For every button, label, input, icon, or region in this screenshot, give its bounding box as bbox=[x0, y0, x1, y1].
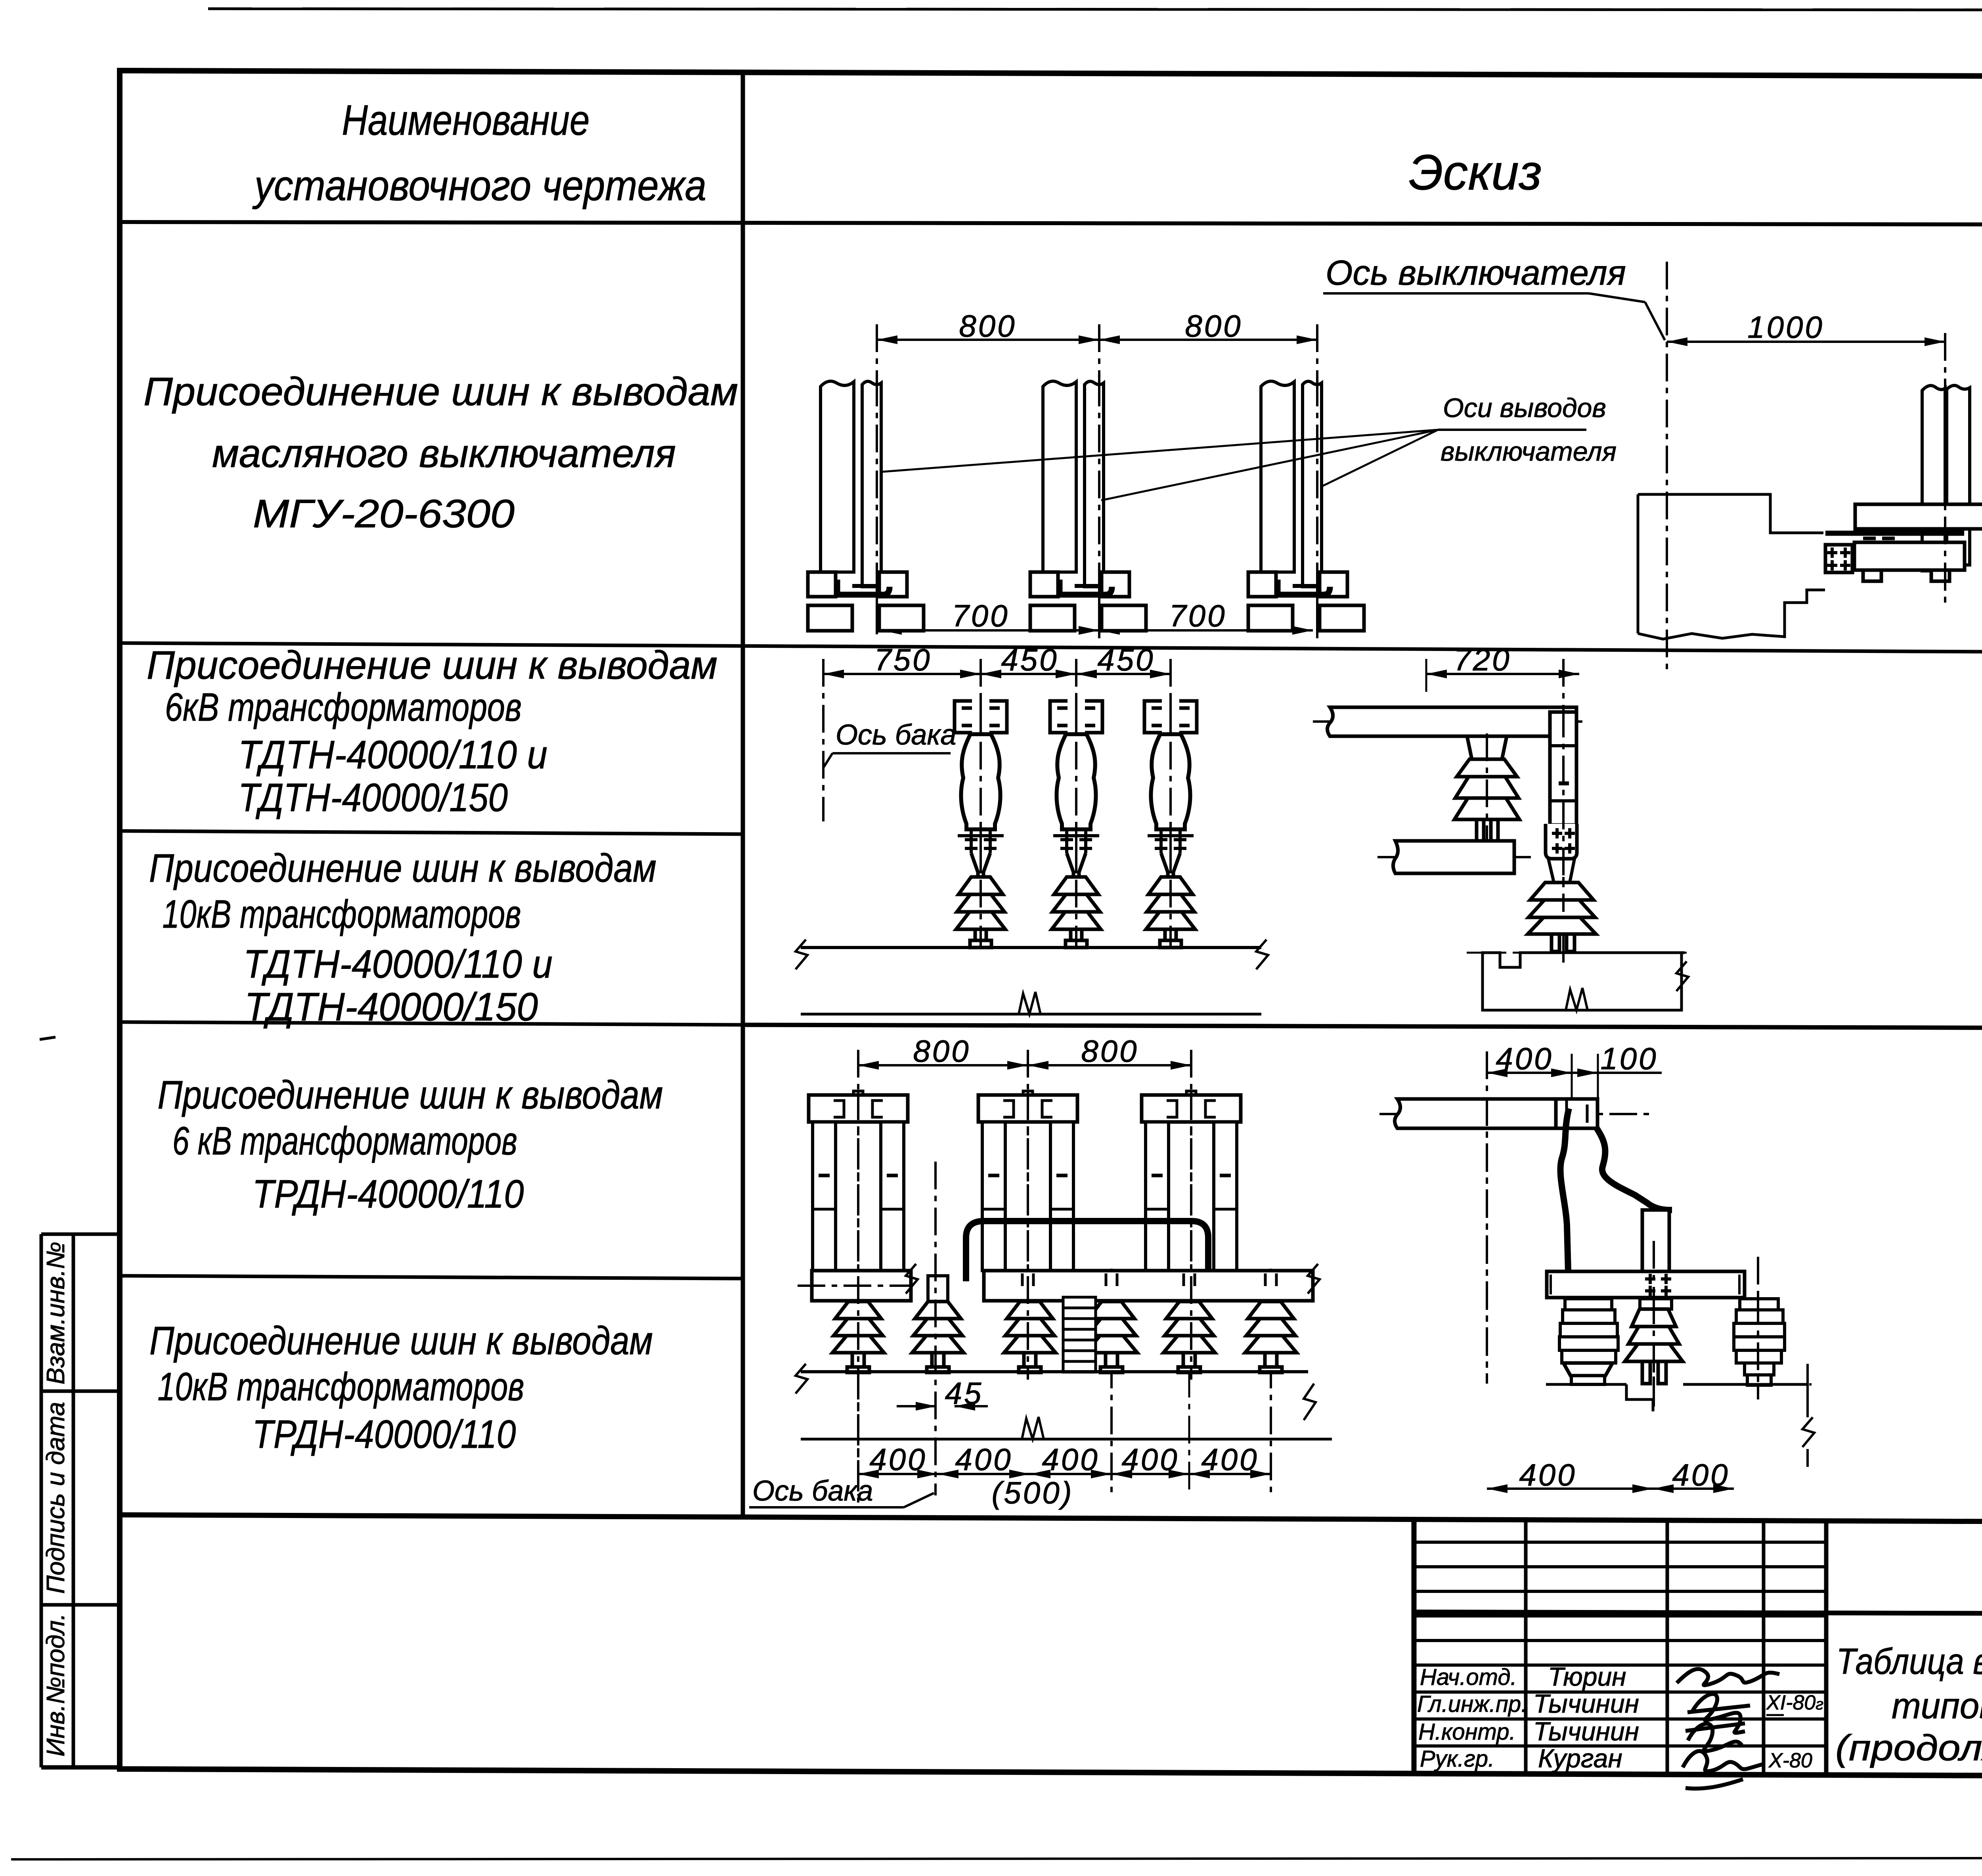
flexible loop conductor sketch C bbox=[966, 1221, 1208, 1281]
sketch B right: top bus run bbox=[1313, 707, 1586, 736]
svg-text:700: 700 bbox=[952, 598, 1009, 633]
corrugated insulator column sketch C left bbox=[1063, 1297, 1096, 1372]
svg-text:Присоединение шин к выводам: Присоединение шин к выводам bbox=[149, 846, 656, 890]
busbar drop assembly phase 2 row1 bbox=[1030, 381, 1146, 631]
svg-text:ТДТН-40000/110 и: ТДТН-40000/110 и bbox=[243, 942, 553, 986]
dimension 700 (B-C) bbox=[1099, 598, 1313, 635]
signature rows labels bbox=[1417, 1664, 1527, 1772]
dimension 400 top (sketch C right) bbox=[1487, 1041, 1572, 1107]
svg-text:400: 400 bbox=[1672, 1457, 1729, 1492]
axis overlay sketchB bushings bbox=[981, 696, 1171, 948]
svg-text:Присоединение шин к выводам: Присоединение шин к выводам bbox=[147, 643, 717, 687]
underline date 1 bbox=[1766, 1714, 1784, 1716]
underline + leader Ось бака C bbox=[749, 1493, 934, 1507]
svg-text:10кВ трансформаторов: 10кВ трансформаторов bbox=[158, 1365, 524, 1409]
left margin box frame bbox=[41, 1234, 120, 1767]
page top edge line bbox=[208, 9, 1982, 10]
svg-text:Присоединение шин к выводам: Присоединение шин к выводам bbox=[158, 1073, 663, 1117]
svg-text:400: 400 bbox=[1496, 1041, 1553, 1076]
svg-text:Присоединение шин к выводам: Присоединение шин к выводам bbox=[143, 369, 738, 414]
svg-text:типовой серии: типовой серии bbox=[1892, 1686, 1982, 1726]
sketch B right: foundation steps bbox=[1467, 953, 1688, 1010]
svg-text:400: 400 bbox=[1519, 1457, 1576, 1492]
row3 name: Присоединение шин 10кВ ТДТН bbox=[149, 846, 656, 1029]
svg-text:Тычинин: Тычинин bbox=[1533, 1689, 1639, 1718]
page bottom edge line bbox=[11, 1858, 1982, 1859]
svg-text:750: 750 bbox=[874, 642, 932, 677]
busbar drop assembly phase 1 row1 bbox=[808, 381, 924, 631]
double busbar drop phase 3 sketch C bbox=[1142, 1091, 1241, 1271]
svg-text:720: 720 bbox=[1454, 642, 1511, 677]
svg-text:400: 400 bbox=[1201, 1442, 1259, 1477]
dimension 1000 bbox=[1667, 310, 1945, 346]
support insulator stack 4 sketch C left bbox=[1086, 1302, 1137, 1373]
svg-text:XI-80г: XI-80г bbox=[1766, 1691, 1823, 1714]
signature squiggle 4 bbox=[1683, 1751, 1763, 1789]
svg-text:Таблица выбора чертежей: Таблица выбора чертежей bbox=[1837, 1641, 1982, 1682]
sketch C right: clamp plus marks bbox=[1645, 1274, 1671, 1296]
sketch C right: top bus run bbox=[1379, 1099, 1649, 1128]
axis overlay row1 phase B bbox=[1098, 379, 1100, 638]
sketch B right: bolt clamp bbox=[1546, 824, 1577, 859]
svg-text:Взам.инв.№: Взам.инв.№ bbox=[41, 1242, 70, 1384]
svg-text:100: 100 bbox=[1600, 1041, 1658, 1076]
title block vertical: date col bbox=[1762, 1518, 1766, 1773]
axis overlay sketchC tank axis bbox=[934, 1162, 937, 1495]
row2 name: Присоединение шин 6кВ ТДТН bbox=[147, 643, 717, 820]
svg-text:Ось бака: Ось бака bbox=[836, 719, 956, 751]
breaker tank outline row1 bbox=[1638, 494, 1825, 639]
date XI-80 bbox=[1766, 1691, 1823, 1714]
support insulator stack 5 sketch C left bbox=[1163, 1302, 1215, 1373]
sketch row1: bus column axis right bbox=[1944, 333, 1946, 607]
sketch C right: pedestal axis bbox=[1486, 1051, 1488, 1384]
svg-text:(500): (500) bbox=[991, 1475, 1073, 1510]
row divider 3/4 sketch col bbox=[743, 1025, 1982, 1028]
svg-text:Эскиз: Эскиз bbox=[1409, 145, 1542, 200]
axis overlay sketchC drops bbox=[858, 1092, 1191, 1495]
svg-text:Оси выводов: Оси выводов bbox=[1443, 393, 1606, 423]
svg-text:700: 700 bbox=[1169, 598, 1226, 633]
sketch row1: axis line phase B bbox=[1098, 324, 1100, 638]
svg-text:Гл.инж.пр.: Гл.инж.пр. bbox=[1417, 1691, 1527, 1717]
axis overlay row1 phase C bbox=[1316, 379, 1318, 638]
sketch C right: lower bus bar bbox=[1547, 1271, 1745, 1298]
title block vertical: names col bbox=[1524, 1518, 1528, 1773]
svg-text:ТРДН-40000/110: ТРДН-40000/110 bbox=[253, 1412, 516, 1457]
title block: big cell divider (top of lower band) bbox=[1414, 1612, 1982, 1615]
dimension 800 (A-B) bbox=[877, 308, 1099, 344]
label Оси выводов выключателя bbox=[1441, 393, 1617, 467]
table header bottom rule bbox=[120, 222, 1982, 225]
dimension 450 (2) bbox=[1076, 642, 1171, 678]
clamp feet row1 bbox=[1863, 570, 1949, 581]
right bus column row1 bbox=[1922, 385, 1970, 571]
sketch row1: breaker axis line bbox=[1666, 262, 1668, 670]
margin divider 1 bbox=[41, 1390, 120, 1393]
svg-text:10кВ трансформаторов: 10кВ трансформаторов bbox=[163, 892, 521, 936]
svg-text:Присоединение шин к выводам: Присоединение шин к выводам bbox=[149, 1319, 653, 1363]
dimension 750 bbox=[823, 642, 981, 678]
long bus bar sketch C bbox=[984, 1264, 1320, 1301]
axis overlay row1 right column bbox=[1944, 379, 1946, 607]
svg-text:Тычинин: Тычинин bbox=[1533, 1717, 1639, 1746]
svg-text:45: 45 bbox=[945, 1376, 983, 1411]
bottom dimension chain 400x5 bbox=[858, 1442, 1271, 1510]
sketch B: tank axis (ось бака) bbox=[822, 659, 825, 821]
svg-text:5.407-9: 5.407-9 bbox=[1980, 1527, 1982, 1614]
row5 name: Присоединение шин 10кВ ТРДН bbox=[149, 1319, 653, 1457]
leader underline Оси выводов bbox=[1438, 429, 1586, 431]
bar tick marks sketch C bbox=[1022, 1273, 1276, 1286]
margin divider 2 bbox=[41, 1603, 120, 1607]
svg-text:Курган: Курган bbox=[1538, 1744, 1622, 1773]
sketch B right: lower bus run bbox=[1377, 841, 1531, 873]
axis overlay sketchC right corr stack bbox=[1757, 1296, 1759, 1399]
svg-text:Рук.гр.: Рук.гр. bbox=[1420, 1746, 1494, 1772]
title block vertical: signature col bbox=[1666, 1518, 1669, 1773]
header: Наименование установочного чертежа bbox=[252, 96, 706, 209]
title block horizontals: thin top grid rows bbox=[1414, 1542, 1826, 1746]
support insulator stack 1 sketch C left bbox=[832, 1302, 884, 1373]
svg-text:ТДТН-40000/150: ТДТН-40000/150 bbox=[238, 775, 508, 820]
svg-text:ТДТН-40000/150: ТДТН-40000/150 bbox=[245, 985, 538, 1029]
svg-text:установочного чертежа: установочного чертежа bbox=[252, 161, 706, 209]
axis overlay sketchC right middle stack bbox=[1653, 1296, 1655, 1399]
sketch C right: corrugated insulator left bbox=[1559, 1299, 1618, 1384]
sketch C: bus drop axes bbox=[858, 1050, 1191, 1503]
svg-text:800: 800 bbox=[913, 1034, 970, 1068]
sketch C right: vertical bus profile bbox=[1642, 1210, 1669, 1271]
sketch C right: corrugated insulator right bbox=[1734, 1257, 1785, 1399]
bolt clamp with plus marks row1 bbox=[1825, 545, 1852, 572]
svg-text:Н.контр.: Н.контр. bbox=[1418, 1719, 1516, 1745]
sketch row1: axis line phase A bbox=[876, 324, 878, 634]
row divider name col 2/3 bbox=[120, 831, 743, 834]
stray pen dash left margin bbox=[40, 1037, 55, 1039]
axis overlay row1 phase A bbox=[876, 379, 878, 634]
svg-text:(продолжение): (продолжение) bbox=[1835, 1728, 1982, 1768]
svg-text:МГУ-20-6300: МГУ-20-6300 bbox=[253, 492, 515, 536]
axis overlay sketchB right drop bbox=[1562, 710, 1565, 912]
sketch B: bushing axes bbox=[981, 659, 1171, 948]
svg-text:Ось бака: Ось бака bbox=[752, 1475, 873, 1507]
title block left edge bbox=[1412, 1518, 1417, 1773]
bottom dimension 400 400 (sketch C right) bbox=[1487, 1457, 1734, 1493]
label Ось выключателя bbox=[1326, 253, 1626, 292]
sketch B right: insulator under bus drop bbox=[1528, 882, 1596, 951]
right clamp plates row1 bbox=[1825, 504, 1982, 570]
underline + leader Ось бака B bbox=[824, 753, 951, 767]
sketch C: lower insulator axes bbox=[1112, 1269, 1271, 1495]
foundation band sketch C left bbox=[796, 1364, 1332, 1439]
sketch C right: middle insulator stack bbox=[1625, 1299, 1683, 1384]
title: Таблица выбора чертежей типовой серии (продолжение) bbox=[1835, 1641, 1982, 1768]
table bottom rule bbox=[120, 1515, 1982, 1524]
foundation band sketch B bbox=[796, 940, 1268, 1014]
leader Ось выключателя bbox=[1323, 293, 1665, 340]
support insulator stack 6 sketch C left bbox=[1245, 1302, 1297, 1373]
svg-text:Подпись и дата: Подпись и дата bbox=[41, 1402, 70, 1594]
svg-text:800: 800 bbox=[959, 308, 1016, 343]
big designation 5.407-9 в.1 bbox=[1980, 1527, 1982, 1614]
svg-text:Инв.№подл.: Инв.№подл. bbox=[41, 1613, 70, 1757]
dimension 800 (B-C) bbox=[1099, 308, 1317, 344]
svg-text:6кВ трансформаторов: 6кВ трансформаторов bbox=[165, 685, 522, 729]
sketch C right: foundation bbox=[1546, 1364, 1814, 1467]
svg-text:X-80: X-80 bbox=[1768, 1749, 1812, 1772]
sketch C right: flexible conductor 1 bbox=[1560, 1108, 1569, 1271]
svg-text:Тюрин: Тюрин bbox=[1548, 1662, 1626, 1691]
svg-text:Ось выключателя: Ось выключателя bbox=[1326, 253, 1626, 292]
signature squiggle 2 bbox=[1687, 1694, 1750, 1733]
tall insulator cap at tank axis bbox=[928, 1276, 948, 1302]
dimension 800 left (sketch C) bbox=[858, 1034, 1028, 1070]
sketch B right: dimension 720 bbox=[1426, 642, 1579, 692]
title block vertical: end of left section bbox=[1824, 1518, 1829, 1773]
svg-text:400: 400 bbox=[1042, 1442, 1099, 1477]
row divider 3/4 name col bbox=[120, 1022, 743, 1025]
row divider 1 full width bbox=[120, 643, 1982, 655]
signature rows names bbox=[1533, 1662, 1639, 1773]
svg-text:Наименование: Наименование bbox=[342, 96, 590, 144]
sketch B right: vertical bus drop bbox=[1550, 659, 1576, 963]
svg-text:выключателя: выключателя bbox=[1441, 436, 1617, 467]
svg-text:Нач.отд.: Нач.отд. bbox=[1420, 1664, 1517, 1690]
column divider name/sketch bbox=[741, 73, 745, 1518]
svg-text:450: 450 bbox=[1097, 642, 1155, 677]
sketch C right: bus end channel bbox=[1556, 1099, 1597, 1128]
row divider name col 4/5 bbox=[120, 1276, 743, 1279]
svg-text:6 кВ трансформаторов: 6 кВ трансформаторов bbox=[172, 1119, 517, 1163]
signature squiggle 1 bbox=[1677, 1669, 1779, 1685]
dimension 45 bbox=[897, 1376, 988, 1411]
svg-text:450: 450 bbox=[1001, 642, 1058, 677]
support insulator stack 3 sketch C left bbox=[1004, 1302, 1056, 1373]
axis overlay sketchC right pedestal bbox=[1486, 1098, 1488, 1384]
sketch B right: pedestal insulator bbox=[1454, 736, 1519, 841]
sketch C right: flexible conductor 2 bbox=[1597, 1128, 1672, 1210]
row1 name: Присоединение шин к выводам масляного выключателя МГУ-20-6300 bbox=[143, 369, 738, 536]
busbar drop assembly phase 3 row1 bbox=[1248, 381, 1364, 631]
sketch C: tank axis bbox=[934, 1162, 937, 1495]
transformer bushing phase 1 sketch B bbox=[955, 701, 1007, 948]
signature squiggle 3 bbox=[1685, 1723, 1745, 1751]
dimension 100 top (sketch C right) bbox=[1572, 1041, 1662, 1128]
transformer bushing phase 2 sketch B bbox=[1050, 701, 1102, 948]
leader lines to phase axes bbox=[882, 430, 1438, 500]
svg-text:400: 400 bbox=[1121, 1442, 1179, 1477]
sketch row1: axis line phase C bbox=[1316, 324, 1318, 638]
double busbar drop phase 1 sketch C bbox=[809, 1091, 908, 1271]
sketch B right: clamp taper bbox=[1548, 859, 1575, 882]
short bus bar sketch C bbox=[798, 1264, 918, 1301]
svg-text:800: 800 bbox=[1081, 1034, 1138, 1068]
date X-80 bbox=[1768, 1749, 1812, 1772]
svg-text:400: 400 bbox=[955, 1442, 1012, 1477]
label Ось бака (sketch B) bbox=[836, 719, 956, 751]
svg-text:400: 400 bbox=[869, 1442, 927, 1477]
svg-text:800: 800 bbox=[1185, 308, 1242, 343]
svg-text:масляного выключателя: масляного выключателя bbox=[212, 431, 676, 476]
dimension 450 (1) bbox=[981, 642, 1076, 678]
row4 name: Присоединение шин 6кВ ТРДН bbox=[158, 1073, 663, 1216]
axis overlay sketchB pedestal bbox=[1486, 733, 1488, 842]
dimension 800 right (sketch C) bbox=[1028, 1034, 1191, 1070]
sketch C right: middle insulator axis bbox=[1653, 1241, 1655, 1411]
double busbar drop phase 2 sketch C bbox=[978, 1091, 1077, 1271]
label Ось бака sketch C bbox=[752, 1475, 873, 1507]
svg-text:1000: 1000 bbox=[1747, 310, 1824, 345]
svg-text:ТРДН-40000/110: ТРДН-40000/110 bbox=[253, 1172, 524, 1216]
svg-text:ТДТН-40000/110 и: ТДТН-40000/110 и bbox=[238, 733, 547, 777]
transformer bushing phase 3 sketch B bbox=[1144, 701, 1197, 948]
dimension 700 (A-B) bbox=[881, 598, 1099, 635]
support insulator stack 2 sketch C left bbox=[912, 1302, 964, 1373]
